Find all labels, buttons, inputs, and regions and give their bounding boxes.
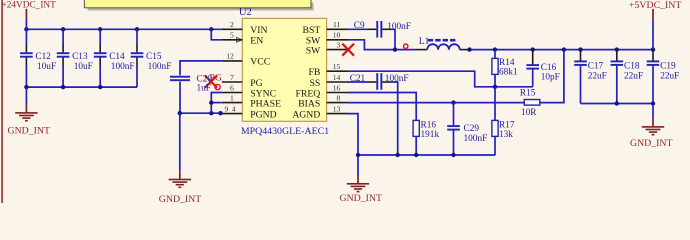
svg-text:BIAS: BIAS [298,98,320,109]
wire EN branch [211,29,222,40]
svg-text:100nF: 100nF [464,134,488,144]
wire PGND rail [180,112,222,114]
no-ERC marker red X on pin 7 [205,76,217,88]
wire C9 to SW node [382,29,395,49]
svg-text:FB: FB [308,67,320,78]
wire SYNC branch [211,93,222,114]
junction dot PHASE [209,100,213,104]
capacitor C14 100nF [94,29,135,87]
pin label EN [250,36,263,47]
inductor L1 [416,37,470,50]
IC U2 MPQ4430GLE-AEC1 body [239,7,329,137]
svg-text:C21: C21 [350,74,366,84]
resistor R14 68k1 [492,50,518,87]
svg-text:15: 15 [333,62,341,71]
pin label SYNC [250,88,276,99]
svg-text:R16: R16 [421,120,437,130]
wire FREQ to R16 [348,93,417,121]
sheet border [1,0,3,203]
svg-text:2: 2 [230,20,234,29]
svg-text:68k1: 68k1 [499,68,518,78]
svg-text:U2: U2 [239,7,252,18]
junction dots output rail [467,47,655,51]
ground GND_INT (below C20) [159,113,201,205]
resistor R17 13k [492,87,515,155]
svg-text:C15: C15 [146,52,162,62]
capacitor C21 100nF [350,73,409,90]
junction dot FB node [493,85,497,89]
svg-text:EN: EN [250,36,263,47]
svg-text:9: 9 [225,104,229,113]
svg-text:GND_INT: GND_INT [340,193,382,203]
wire VCC to C20 [180,61,222,75]
junction dot C29 tap [451,100,455,104]
pin 14 stub (right) [327,73,348,82]
resistor R16 191k [413,120,439,155]
pin 12 stub (left) [222,52,243,61]
svg-text:4: 4 [232,104,236,113]
svg-text:VIN: VIN [250,25,267,36]
capacitor C18 22uF [611,50,644,104]
svg-text:C13: C13 [72,52,88,62]
ground GND_INT (below AGND) [340,155,382,204]
svg-text:22uF: 22uF [588,72,607,82]
power port +5VDC_INT [629,0,681,18]
svg-text:191k: 191k [421,130,440,140]
ground GND_INT (left) [8,87,50,137]
svg-text:C17: C17 [588,62,604,72]
svg-text:10: 10 [333,31,341,40]
pin label BIAS (right 6) [298,98,320,109]
pin label SW (right 1) [306,36,321,47]
svg-text:C16: C16 [541,63,557,73]
ground GND_INT (right) [630,104,672,150]
pin 10 stub (right) [327,31,348,40]
wire input-cap ground rail [26,86,137,88]
capacitor C12 10uF [20,29,56,87]
junction dots analog ground rail [356,153,456,157]
svg-text:AGND: AGND [292,109,320,120]
capacitor C16 10pF [526,50,559,87]
resistor R15 10R [520,89,540,119]
svg-text:R17: R17 [499,120,515,130]
wire FB [348,71,533,87]
svg-text:3: 3 [337,40,341,49]
svg-text:6: 6 [230,83,234,92]
svg-text:14: 14 [333,73,341,82]
pin 2 stub (left) [222,20,243,29]
svg-text:12: 12 [226,52,234,61]
red circle marker on SW rail [404,44,408,48]
svg-text:+5VDC_INT: +5VDC_INT [629,0,681,11]
svg-text:PHASE: PHASE [250,98,281,109]
svg-text:C18: C18 [624,62,640,72]
wire PHASE branch [211,102,222,104]
pin label SS (right 4) [310,78,321,89]
svg-text:13: 13 [333,104,341,113]
pin 16 stub (right) [327,83,348,92]
wire BIAS to R15 [348,102,525,104]
wire +24V rail [26,28,221,30]
pin label SW (right 2) [306,45,321,56]
svg-text:100nF: 100nF [148,62,172,72]
wire SW to rail [348,40,416,50]
pin label PHASE [250,98,281,109]
node junction dots on +24V rail [24,27,213,31]
pin 7 stub (left) [222,73,243,82]
pin 5 stub (left) [222,31,243,40]
capacitor C20 1uF [170,74,212,113]
wire BST to C9 [348,28,377,30]
capacitor C19 22uF [647,50,680,104]
pin label FREQ (right 5) [296,88,321,99]
pin label PGND [250,109,276,120]
no-ERC marker red X on pin 3 [342,44,354,56]
svg-text:7: 7 [230,73,234,82]
svg-text:C14: C14 [109,52,125,62]
pin label FB (right 3) [308,67,320,78]
net label PG [210,72,222,83]
svg-text:C12: C12 [35,52,51,62]
red circle marker near PG [215,84,220,89]
wire +24V drop [25,18,27,29]
svg-text:10R: 10R [521,108,537,118]
svg-text:22uF: 22uF [624,72,643,82]
pin 5 input arrow marker [237,37,242,42]
svg-text:PGND: PGND [250,109,276,120]
svg-text:GND_INT: GND_INT [159,194,201,203]
pin label BST (right 0) [303,25,321,36]
wire SS to C21 [348,81,377,83]
wire R15 to output rail [540,50,564,103]
svg-text:MPQ4430GLE-AEC1: MPQ4430GLE-AEC1 [241,126,329,137]
svg-text:22uF: 22uF [660,72,679,82]
svg-text:10uF: 10uF [37,62,56,72]
pin label VCC [250,57,270,68]
svg-text:C29: C29 [464,124,480,134]
svg-text:1: 1 [230,93,234,102]
svg-text:L1: L1 [419,37,430,47]
pin label AGND (right 7) [292,109,320,120]
pin 1 stub (left) [222,93,243,102]
svg-text:C19: C19 [660,62,676,72]
wire analog ground rail [358,154,495,156]
junction dots output-cap rail [615,101,656,105]
svg-text:13k: 13k [499,130,513,140]
capacitor C29 100nF [447,103,487,155]
svg-text:VCC: VCC [250,57,270,68]
pin label VIN [250,25,267,36]
junction dot SW node [393,47,397,51]
svg-text:PG: PG [250,78,262,89]
svg-text:8: 8 [337,93,341,102]
pin 9 4 stub (PGND) [222,104,243,113]
wire C21 to ground rail [382,82,397,155]
power port +24VDC_INT [2,1,57,18]
svg-text:5: 5 [230,31,234,40]
pin 8 stub (right) [327,93,348,102]
yellow note box (clipped at top) [84,0,313,10]
capacitor C17 22uF [574,50,607,104]
svg-text:SW: SW [306,45,321,56]
capacitor C15 100nF [131,29,172,87]
svg-text:SS: SS [310,78,321,89]
svg-text:GND_INT: GND_INT [630,138,672,149]
junction dots PGND rail [178,111,223,115]
svg-text:10uF: 10uF [74,62,93,72]
svg-text:11: 11 [333,20,341,29]
pin 13 stub (right) [327,104,348,113]
pin 3 stub (right) [327,40,348,49]
svg-text:C9: C9 [354,21,365,31]
pin 15 stub (right) [327,62,348,71]
pin 6 stub (left) [222,83,243,92]
wire output rail [470,49,654,51]
pin 11 stub (right) [327,20,348,29]
capacitor C13 10uF [57,29,93,87]
wire +5V drop [652,18,654,49]
svg-text:R14: R14 [499,58,515,68]
pin label PG [250,78,262,89]
svg-text:1uF: 1uF [197,83,211,93]
svg-text:+24VDC_INT: +24VDC_INT [2,1,57,11]
capacitor C9 100nF [354,21,411,38]
svg-text:16: 16 [333,83,341,92]
svg-text:10pF: 10pF [541,73,560,83]
svg-text:GND_INT: GND_INT [8,126,50,137]
svg-text:100nF: 100nF [111,62,135,72]
wire AGND down [348,114,359,155]
wire output-cap ground rail [581,103,654,105]
svg-text:BST: BST [303,25,321,36]
junction dots on input-cap ground rail [24,85,102,89]
svg-text:R15: R15 [520,89,536,99]
svg-text:100nF: 100nF [387,22,411,32]
